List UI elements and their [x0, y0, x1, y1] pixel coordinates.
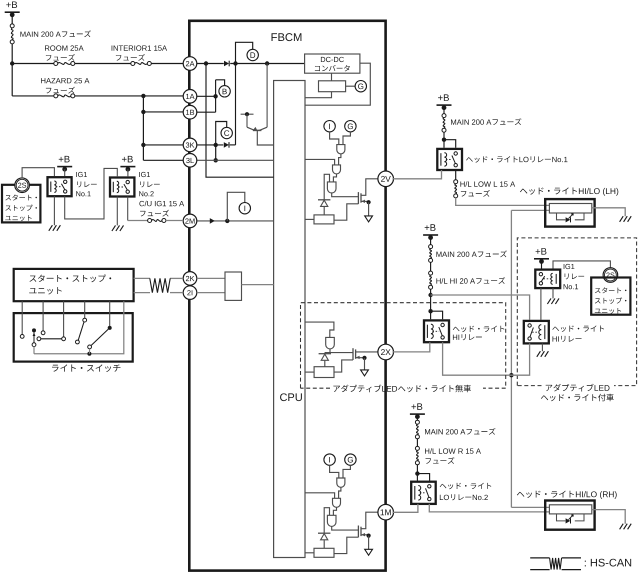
wire [443, 132, 445, 140]
node I (1M driver) [324, 454, 335, 465]
junction [233, 61, 237, 65]
wire mosfet drain to port [361, 179, 379, 196]
wire [443, 108, 445, 114]
wire to 3L [143, 159, 183, 161]
wire to 1B [143, 111, 183, 113]
junction [214, 158, 218, 162]
logic gate U2 [333, 498, 341, 507]
wire HI relay switch to HI bus [443, 342, 512, 375]
switch wire 2 [42, 301, 44, 331]
wire gate2 out [333, 507, 336, 515]
wire HI bus to LH lamp [511, 209, 549, 211]
wire IG1 switch to HI relay coil [540, 288, 542, 320]
wire 2S to IG1 relay No.1 [22, 168, 54, 179]
node G (1M driver) [345, 454, 356, 465]
wire mosfet source [361, 200, 369, 202]
port 1A [183, 90, 197, 104]
junction [87, 352, 91, 356]
wire zener to resistor [323, 207, 325, 215]
junction [225, 219, 229, 223]
wire LH lamp to ground [592, 208, 625, 216]
wire CPU enable B [305, 218, 314, 220]
connector 2S (adaptive) [603, 268, 618, 283]
wire gate out to mosfet [325, 352, 353, 354]
contact [62, 337, 66, 341]
chassis ground [547, 298, 551, 304]
fusible link H/L HI 20A [429, 271, 433, 275]
wire 1A to node [197, 95, 216, 97]
wire IG1 coil ground [552, 288, 554, 298]
wire to signal ground [368, 202, 370, 216]
arrow on 2M line [210, 218, 215, 224]
gate resistor [314, 548, 334, 557]
junction [204, 61, 208, 65]
wire CAN to CPU [242, 284, 274, 286]
wire gate1 out [339, 487, 341, 498]
wire to relay switch [444, 140, 456, 148]
wire G input [343, 465, 350, 478]
diode on 3K line [224, 142, 229, 148]
wire CPU enable A [305, 493, 335, 499]
fusible link MAIN 200A (LO2) [415, 420, 419, 424]
junction [442, 138, 446, 142]
port 3K [183, 138, 197, 152]
relay box headlight LO No.2 [411, 482, 436, 504]
port 1M [378, 504, 394, 520]
port 2M [183, 214, 197, 228]
junction [415, 471, 419, 475]
port 3L [183, 154, 197, 168]
headlight HI/LO (RH) label [517, 491, 617, 499]
zener diode [318, 532, 330, 534]
switch wire 5 [109, 301, 111, 326]
junction node at 1A feed [141, 94, 145, 98]
fusible link MAIN 200A (LO1) [442, 114, 446, 118]
relay box headlight HI (std) [424, 320, 449, 342]
wire IG1-2 coil to ground [116, 197, 118, 226]
logic gate U2 [333, 165, 341, 174]
wire [127, 169, 129, 176]
wire resistor to CPU [305, 92, 332, 98]
wire contact link [41, 338, 62, 340]
wire diode node down to 3K diode [235, 64, 237, 145]
start-stop unit (left) box [2, 185, 40, 223]
contact [32, 343, 36, 347]
node C hook wire [216, 122, 227, 145]
wire 3K [197, 144, 224, 146]
wire 1A/1B vertical [215, 80, 217, 112]
zener diode 2X [319, 353, 331, 355]
wire [416, 465, 418, 481]
battery terminal +B (LO relay No.1) [438, 94, 449, 101]
fuse C/U IG1 15A [148, 219, 152, 223]
wire HI relay coil ground [541, 343, 543, 351]
chassis ground [112, 225, 116, 231]
CAN transceiver box [225, 272, 242, 300]
wire gate3 out to mosfet [332, 193, 359, 197]
switch wire 4 [84, 301, 86, 318]
fuse ROOM 25A [54, 62, 58, 66]
fuse HAZARD 25A [54, 94, 58, 98]
wire mosfet source [361, 534, 369, 536]
mosfet driver [357, 526, 359, 538]
contact pole [108, 326, 112, 330]
relay box headlight HI adaptive [524, 321, 549, 344]
wire to signal ground [368, 536, 370, 550]
relay box IG1 No.1 [48, 177, 72, 196]
wire relay coil to 1M [393, 504, 418, 512]
wire gate2 out [333, 174, 336, 182]
wire 2K to CAN transceiver [197, 277, 225, 279]
fuse INTERIOR1 15A [131, 62, 135, 66]
wire [430, 262, 432, 271]
mosfet driver 2X [352, 348, 354, 360]
wire IG1 coil to 2S unit [553, 261, 610, 269]
HS-CAN legend text [585, 559, 631, 567]
node I hook wire [227, 192, 245, 221]
contact [37, 337, 41, 341]
fusible link MAIN 200A fuse (left) [10, 24, 14, 28]
port 2A [183, 57, 197, 71]
chassis ground [537, 351, 541, 357]
battery terminal +B (adaptive) [536, 248, 547, 255]
wire relay switch to RH lamp [429, 504, 549, 512]
wire fuse to LH lamp low [456, 198, 550, 206]
junction [428, 309, 432, 313]
chassis ground RH [620, 524, 624, 530]
wire relay switch to fuse [455, 170, 457, 180]
wire CPU enable [305, 371, 314, 373]
wire vertical bus to 1B 3K 3L [142, 96, 144, 160]
start-stop unit box [14, 269, 134, 301]
wire [33, 347, 35, 354]
wire CPU enable A [305, 159, 335, 165]
wire gate3 left input to zener [324, 508, 329, 534]
wire 2M to CPU [197, 220, 274, 222]
wire IG1-2 switch to fuse [127, 197, 129, 221]
headlight HI/LO LH box [545, 199, 594, 227]
chassis ground [49, 225, 53, 231]
wire 3L to CPU [197, 159, 274, 161]
wire to 3K [143, 144, 183, 146]
twisted pair HS-CAN wires [134, 277, 150, 279]
node D hook wire [236, 42, 253, 63]
contact [41, 331, 45, 335]
wire resistor to mosfet gate [334, 537, 358, 553]
junction [428, 293, 432, 297]
wire 2A branch down to CPU [206, 64, 274, 178]
contact [20, 335, 24, 339]
wire CPU to 2X gate [305, 322, 334, 337]
wire [11, 15, 13, 24]
contact pole [32, 328, 36, 332]
port 2X [378, 344, 394, 360]
junction [265, 61, 269, 65]
wire [88, 349, 90, 354]
CPU block [274, 81, 305, 558]
signal ground [365, 216, 373, 222]
logic gate U3 [327, 182, 336, 193]
node D [247, 49, 258, 60]
logic gate U1 [337, 145, 345, 154]
wire [33, 332, 35, 342]
fusible link H/L LOW L 15A [454, 180, 458, 184]
headlight HI/LO RH box [545, 501, 594, 530]
contact [83, 318, 87, 322]
transistor Q1 collector bar [241, 113, 254, 115]
wire zener to resistor [323, 540, 325, 548]
wire I input [330, 465, 339, 478]
wire RH lamp to ground [592, 510, 625, 524]
port 2V [378, 171, 394, 187]
signal ground 2X [361, 370, 369, 376]
wire source [356, 357, 365, 359]
wire [64, 169, 66, 176]
wire [346, 85, 356, 87]
wire I input [330, 132, 339, 145]
LH leveling actuator [557, 213, 566, 220]
relay box headlight LO No.1 [437, 149, 462, 170]
switch blade 2 [91, 329, 108, 345]
node G (2V driver) [345, 121, 356, 132]
wire to relay switch [417, 474, 429, 481]
wire [416, 439, 418, 447]
battery terminal +B (IG1 No.1) [59, 156, 70, 163]
port 2I [183, 286, 197, 300]
wire [430, 238, 432, 245]
twisted pair coil symbol [150, 278, 170, 292]
relay box IG1 No.2 [110, 178, 134, 197]
wire [416, 417, 418, 421]
wire to 2M [166, 220, 183, 222]
switch wire 3 [63, 301, 65, 337]
logic gate U4 [326, 337, 335, 348]
node I (2V driver) [324, 121, 335, 132]
wire [324, 361, 326, 367]
wire resistor to mosfet [334, 360, 353, 372]
headlight HI/LO (LH) label [520, 187, 618, 195]
wire 2I to CAN transceiver [197, 292, 225, 294]
light switch box [14, 313, 133, 362]
HS-CAN legend twisted pair symbol [530, 557, 549, 559]
wire [430, 289, 432, 319]
wire drain to 2X port [356, 351, 379, 353]
logic gate U1 [337, 478, 345, 487]
switch wire 6 common return [34, 301, 124, 354]
wire HI bus to RH lamp [511, 506, 549, 508]
HI/LO bus vertical [510, 210, 512, 507]
FBCM body control module box [189, 21, 385, 571]
wire to 2A [12, 63, 54, 65]
wire HI relay switch to bus [511, 343, 529, 375]
wire HI feed to adaptive relay [431, 295, 530, 320]
wire HI relay coil to 2X [393, 342, 430, 352]
battery terminal +B (IG1 No.2) [122, 156, 133, 163]
wire [11, 44, 13, 96]
contact [76, 340, 80, 344]
connector 2S [15, 178, 30, 193]
wire IG1-1 coil to ground [53, 196, 55, 225]
wire resistor to mosfet gate [334, 204, 358, 220]
zener diode [318, 199, 330, 201]
relay box IG1 No.1 adaptive [535, 270, 560, 289]
battery terminal +B (H/L HI) [425, 224, 436, 231]
wire Q1 base to CPU [257, 130, 273, 145]
port 1B [183, 105, 197, 119]
wire to relay coil [443, 140, 445, 148]
node C [221, 127, 232, 138]
wire gate3 out to mosfet [332, 526, 359, 530]
battery terminal +B (top left) [6, 1, 17, 8]
wire 1B to node [197, 111, 216, 113]
LH bulb [549, 204, 591, 214]
wire gate1 out [339, 154, 341, 165]
wire 2A to DC-DC [197, 63, 224, 65]
port 2K [183, 272, 197, 286]
node I [239, 203, 250, 214]
logic gate U3 [327, 515, 336, 526]
wire hazard feed [12, 95, 54, 97]
switch blade [78, 322, 84, 340]
diode on 2A line [224, 61, 229, 67]
wire IG1-1 switch out to IG1-2 coil [65, 168, 118, 219]
wire CPU enable B [305, 552, 314, 554]
node junction [10, 61, 14, 65]
fusible link H/L LOW R 15A [415, 446, 419, 450]
battery terminal +B (LO relay No.2) [411, 403, 422, 410]
mosfet driver [357, 192, 359, 204]
wire DC-DC output loop to CPU [305, 63, 370, 105]
node B hook wire [216, 80, 225, 86]
node B [219, 86, 230, 97]
start-stop unit (adaptive) box [591, 278, 630, 315]
wire mosfet drain to port [361, 512, 379, 529]
wire [541, 261, 543, 268]
transistor Q1 [246, 114, 248, 127]
wire gate3 left input to zener [324, 174, 329, 200]
fusible link MAIN 200A (HI) [429, 245, 433, 249]
contact [88, 345, 92, 349]
signal ground [365, 549, 373, 555]
wire relay coil to 2V [393, 170, 442, 179]
chassis ground LH [620, 216, 624, 222]
junction [509, 373, 513, 377]
wire to HI relay switch [431, 311, 443, 319]
RH leveling actuator [557, 514, 566, 521]
resistor R1 (G sense) [319, 81, 346, 92]
wire G input [343, 132, 350, 145]
junction [214, 143, 218, 147]
node G [355, 81, 366, 92]
RH bulb [549, 505, 591, 514]
dashed box: with adaptive LED headlights [517, 238, 636, 386]
gate resistor 2X [314, 367, 334, 378]
DC-DC converter box [305, 54, 360, 73]
wire 3K-3L link [215, 145, 217, 160]
gate resistor [314, 215, 334, 224]
dashed box: without adaptive LED headlights [301, 303, 506, 389]
switch wire 1 [21, 301, 23, 334]
wire DC-DC to resistor [331, 73, 333, 81]
